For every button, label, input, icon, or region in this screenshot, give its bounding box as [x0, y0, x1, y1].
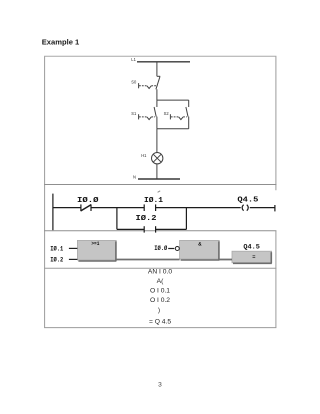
S1 actuator chevron: [147, 117, 151, 120]
svg-text:L1: L1: [131, 57, 136, 62]
main rung segment 1: [53, 207, 81, 209]
svg-text:>=1: >=1: [91, 241, 99, 247]
divider schematic/ladder: [44, 184, 276, 186]
N bus: [138, 178, 180, 180]
svg-text:Q4.5: Q4.5: [237, 197, 259, 205]
contact S1 (NO) top terminal: [156, 100, 158, 107]
contact S2 (NO) top terminal: [188, 100, 190, 107]
svg-text:3: 3: [158, 382, 162, 389]
ladder right rail tick: [274, 205, 276, 211]
S0 actuator plunger: [138, 83, 140, 88]
wire branch to lamp: [156, 129, 158, 153]
branch bottom rail: [157, 128, 189, 130]
branch vertical right: [185, 208, 187, 230]
contact I0.0 NC slash: [81, 205, 92, 211]
stray tick above I0.1: [158, 191, 161, 193]
svg-text:S0: S0: [131, 80, 137, 85]
S1 actuator plunger: [138, 114, 140, 119]
svg-text:IØ.1: IØ.1: [50, 244, 63, 252]
contact I0.2 NO right bar: [155, 226, 157, 232]
contact S1 arm: [154, 107, 156, 117]
S0 actuator link 2: [151, 85, 157, 87]
S2 actuator chevron: [179, 117, 183, 120]
S2 actuator link 2: [183, 116, 187, 118]
main rung segment 2: [91, 207, 144, 209]
divider ladder/FBD: [44, 230, 276, 232]
AND block body: [180, 240, 220, 259]
contact S0 arm: [156, 77, 160, 90]
svg-text:S1: S1: [131, 111, 137, 116]
svg-text:O I 0.1: O I 0.1: [150, 288, 170, 295]
S2 actuator link: [171, 116, 179, 118]
figure frame bottom border: [44, 327, 276, 329]
contact S1 bottom terminal: [156, 117, 158, 129]
lamp H1 circle: [152, 153, 163, 164]
coil Q4.5 left paren: [242, 205, 244, 211]
negation circle: [175, 247, 179, 251]
S0 actuator chevron: [147, 86, 151, 89]
wire L1 to S0: [156, 62, 158, 77]
wire S0 to branch: [156, 89, 158, 100]
L1 bus: [137, 61, 190, 63]
contact S2 arm: [186, 107, 188, 117]
branch rung segment 2: [156, 228, 187, 230]
svg-text:Example 1: Example 1: [42, 37, 80, 46]
svg-text:A(: A(: [157, 278, 164, 285]
wire lamp to N: [156, 164, 158, 179]
input dash I0.2: [69, 258, 78, 260]
branch top rail: [157, 99, 189, 101]
svg-text:AN I 0.0: AN I 0.0: [148, 269, 172, 276]
lamp H1 cross: [153, 154, 161, 162]
contact I0.0 NC left bar: [80, 204, 82, 211]
FBD connection OR to AND: [116, 259, 180, 261]
branch vertical left: [116, 208, 118, 230]
svg-text:O I 0.2: O I 0.2: [150, 297, 170, 304]
svg-text:N: N: [133, 175, 136, 180]
AND block shadow bottom: [181, 259, 220, 261]
S1 actuator link: [139, 116, 147, 118]
coil Q4.5 right paren: [247, 205, 249, 211]
svg-text:): ): [158, 307, 160, 314]
figure frame top border: [44, 55, 276, 57]
assign block shadow bottom: [233, 262, 272, 264]
contact I0.1 NO left bar: [143, 204, 145, 211]
svg-text:Q4.5: Q4.5: [243, 244, 260, 251]
divider FBD/STL: [44, 267, 276, 269]
contact S2 bottom terminal: [188, 117, 190, 129]
svg-text:= Q 4.5: = Q 4.5: [149, 318, 171, 325]
FBD connection AND to assign: [219, 259, 232, 261]
contact I0.2 NO left bar: [143, 226, 145, 232]
main rung segment 3: [156, 207, 241, 209]
OR block shadow right: [115, 241, 117, 261]
figure frame right border upper: [275, 56, 277, 190]
figure frame right border lower: [275, 231, 277, 328]
svg-text:IØ.2: IØ.2: [50, 255, 63, 263]
svg-text:IØ.2: IØ.2: [136, 214, 157, 223]
S1 actuator link 2: [151, 116, 155, 118]
assign block shadow right: [270, 252, 272, 263]
svg-text:IØ.Ø: IØ.Ø: [77, 196, 99, 205]
input dash I0.0: [168, 248, 174, 250]
assign block body: [232, 251, 272, 263]
svg-text:=: =: [252, 254, 255, 260]
AND block shadow right: [218, 241, 220, 260]
contact S0 (NC) top tick: [157, 75, 160, 77]
branch rung segment 1: [117, 228, 144, 230]
svg-text:H1: H1: [141, 153, 147, 158]
main rung segment 4: [250, 207, 275, 209]
input dash I0.1: [69, 247, 78, 249]
figure frame outer left border: [44, 56, 46, 327]
ladder left rail: [52, 194, 54, 231]
svg-text:IØ.1: IØ.1: [144, 196, 164, 205]
S2 actuator plunger: [169, 114, 171, 119]
contact I0.1 NO right bar: [155, 204, 157, 211]
contact I0.0 NC right bar: [90, 204, 92, 211]
svg-text:S2: S2: [164, 111, 170, 116]
OR block shadow bottom: [78, 260, 116, 262]
OR block body: [77, 240, 116, 260]
svg-text:IØ.Ø: IØ.Ø: [154, 244, 167, 252]
S0 actuator link: [139, 85, 147, 87]
